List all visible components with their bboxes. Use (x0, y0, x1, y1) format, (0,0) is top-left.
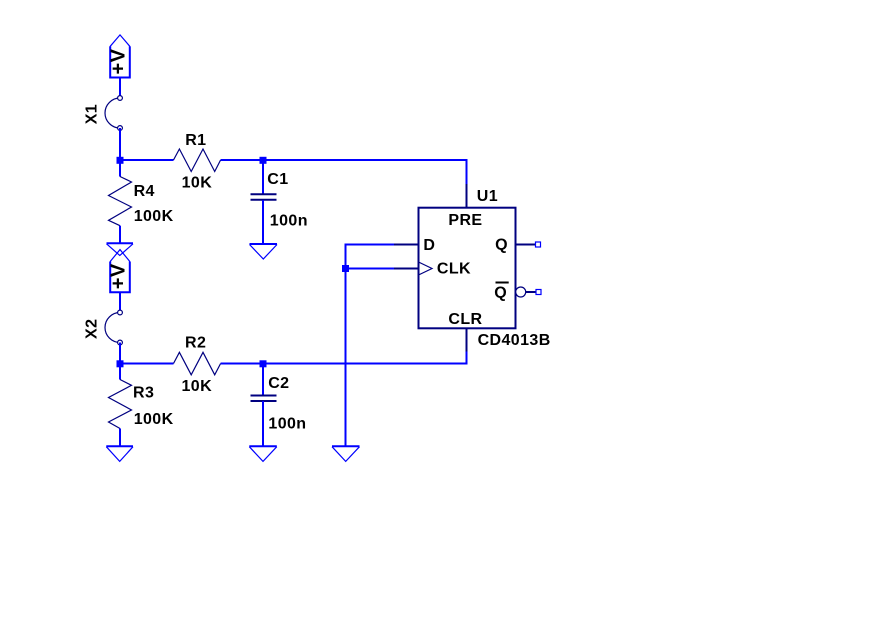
svg-text:D: D (423, 237, 435, 254)
power +V symbol 2 (108, 250, 131, 293)
wire C1 to ground (262, 200, 264, 244)
junction node D (260, 360, 267, 367)
ground below C2 (249, 446, 276, 461)
pin PRE stub (466, 184, 468, 208)
svg-text:X1: X1 (84, 104, 101, 124)
svg-text:100K: 100K (134, 208, 174, 225)
pin Q-bar label (494, 283, 508, 302)
svg-text:R4: R4 (134, 183, 155, 200)
capacitor C2 (251, 375, 307, 433)
svg-text:U1: U1 (477, 188, 498, 205)
junction node C (117, 360, 124, 367)
terminal at Q (536, 242, 541, 247)
wire R2 to node D and to CLR (221, 352, 467, 364)
pin D stub (394, 244, 419, 246)
svg-text:+V: +V (108, 263, 130, 289)
pin CLK stub (394, 268, 419, 270)
svg-text:R1: R1 (185, 132, 206, 149)
svg-text:Q: Q (494, 285, 507, 302)
wire node B to C1 (262, 160, 264, 194)
svg-text:10K: 10K (182, 378, 213, 395)
pin Q-bar stub (526, 291, 536, 293)
clock triangle (419, 262, 433, 275)
arrow terminal below R4 (107, 243, 134, 255)
wire node E to ground (345, 269, 347, 446)
inversion bubble on Q-bar (516, 287, 526, 297)
wire C2 to ground (262, 401, 264, 446)
capacitor C1 (251, 171, 308, 230)
svg-text:C1: C1 (267, 171, 288, 188)
svg-text:Q: Q (495, 237, 508, 254)
resistor R2 (174, 335, 221, 395)
wire +V2 to X2 (119, 292, 121, 311)
wire R1 to node B and to PRE (221, 160, 467, 184)
power +V symbol top (107, 35, 131, 78)
svg-text:R2: R2 (185, 335, 206, 352)
svg-text:R3: R3 (133, 385, 154, 402)
svg-text:CLK: CLK (437, 261, 471, 278)
svg-text:100n: 100n (268, 416, 306, 433)
svg-text:100K: 100K (134, 411, 174, 428)
resistor R4 (109, 177, 174, 226)
svg-text:X2: X2 (84, 319, 101, 339)
svg-text:PRE: PRE (448, 212, 482, 229)
resistor R3 (109, 380, 174, 429)
pin CLR stub (466, 328, 468, 351)
svg-text:CLR: CLR (448, 311, 482, 328)
svg-text:+V: +V (107, 48, 129, 74)
resistor R1 (174, 132, 221, 191)
op-amp U1 flip-flop body (419, 208, 516, 329)
terminal at Q-bar (536, 290, 541, 295)
svg-text:C2: C2 (268, 375, 289, 392)
wire +V1 to X1 (119, 78, 121, 98)
ground below R3 (106, 446, 133, 461)
svg-text:10K: 10K (182, 174, 213, 191)
junction node A (117, 157, 124, 164)
ground below C1 (250, 244, 278, 259)
connector X1 (84, 96, 123, 131)
junction node E (342, 265, 349, 272)
svg-text:CD4013B: CD4013B (478, 332, 551, 349)
wire node C to R3 (119, 367, 121, 380)
wire D pin to node E (346, 245, 395, 269)
svg-text:100n: 100n (270, 213, 308, 230)
junction node B (260, 157, 267, 164)
wire X2 to node C (119, 343, 121, 364)
wire node A to R1 (120, 159, 174, 161)
wire R3 to ground (119, 429, 121, 446)
wire node D to C2 (262, 364, 264, 396)
pin Q stub (516, 244, 536, 246)
wire node A to R4 (119, 163, 121, 177)
connector X2 (84, 310, 123, 345)
wire CLK pin to node E (346, 268, 395, 270)
wire node C to R2 (120, 363, 174, 365)
wire X1 to node A (119, 128, 121, 160)
ground below node E (332, 446, 360, 461)
wire R4 to arrow (119, 226, 121, 243)
